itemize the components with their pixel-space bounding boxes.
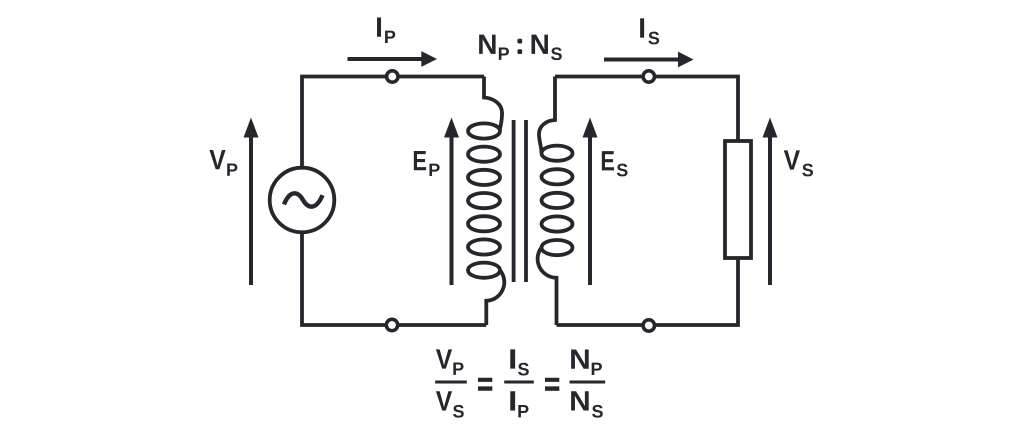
secondary winding turn 3 [542,193,573,208]
terminal node top-left [387,71,398,82]
svg-text:N: N [477,29,497,60]
formula equals 1 [478,378,492,391]
formula fraction bar 3 [570,381,606,384]
secondary winding turn 2 [542,169,573,184]
secondary winding exit lead [538,248,557,325]
secondary winding turn 4 [542,216,573,231]
svg-text:V: V [784,145,801,176]
primary winding turn 6 [468,239,500,254]
svg-text:S: S [550,44,562,64]
wire bottom-left: source to primary [302,233,486,325]
arrow Ip current direction [348,51,438,67]
svg-text:S: S [616,160,628,180]
svg-text:S: S [802,160,814,180]
secondary winding turn 1 [542,146,573,161]
formula fraction bar 1 [435,380,467,383]
svg-text:P: P [452,359,464,379]
formula equals 2 [545,378,559,391]
svg-text:P: P [384,27,396,47]
label Es [600,145,628,180]
svg-text:V: V [436,344,453,375]
label turns ratio Np : Ns [477,29,562,64]
svg-text:I: I [638,13,646,44]
primary winding turn 7 [468,263,500,278]
label Is [638,13,660,49]
svg-text:I: I [508,344,517,375]
transformer core line left [512,120,516,282]
primary winding turn 5 [468,216,500,231]
svg-text:P: P [498,44,510,64]
svg-text:S: S [518,359,530,379]
terminal node bottom-right [643,320,654,331]
svg-text:S: S [591,402,603,422]
label Ip [375,12,396,47]
primary winding entry lead [484,77,502,131]
transformer core line right [524,120,528,282]
secondary winding turn 5 [542,240,573,255]
secondary winding entry lead [539,77,555,154]
svg-text:S: S [452,401,464,421]
svg-text:P: P [428,160,440,180]
svg-text:V: V [209,144,226,175]
svg-text:N: N [530,29,550,60]
arrow Vp voltage [244,118,259,286]
label Vp [209,144,238,180]
svg-text:S: S [648,28,660,48]
formula fraction bar 2 [504,380,534,383]
formula numerator Is [508,344,530,380]
svg-text:E: E [412,145,427,176]
svg-text:P: P [226,160,238,180]
arrow Is current direction [604,52,694,68]
load resistor R1 [725,141,751,258]
svg-text:V: V [436,385,453,416]
svg-text:I: I [375,12,383,43]
sine symbol inside source [284,193,323,206]
primary winding turn 4 [468,193,500,208]
ac source V1 [270,168,335,233]
formula numerator Vp [436,344,464,379]
wire top-right: secondary to load [555,77,738,142]
svg-text:I: I [508,385,517,416]
arrow Vs voltage [763,118,778,286]
terminal node top-right [643,71,654,82]
primary winding turn 3 [468,170,500,185]
terminal node bottom-left [386,319,397,330]
formula numerator Np [569,344,602,379]
formula denominator Ip [508,385,529,421]
primary winding exit lead [486,270,504,325]
label Ep [412,145,440,180]
svg-text:N: N [569,386,591,417]
svg-text:E: E [600,145,615,176]
svg-text:P: P [517,401,529,421]
primary winding turn 1 [468,123,500,138]
formula denominator Ns [569,386,603,422]
svg-text:N: N [569,344,591,375]
svg-text:P: P [591,359,603,379]
wire top-left: source to primary [302,77,484,168]
primary winding turn 2 [468,147,500,162]
label Vs [784,145,814,181]
wire bottom-right: load to secondary [557,258,739,325]
arrow Es emf [583,118,598,286]
formula denominator Vs [436,385,465,421]
arrow Ep emf [444,118,459,286]
